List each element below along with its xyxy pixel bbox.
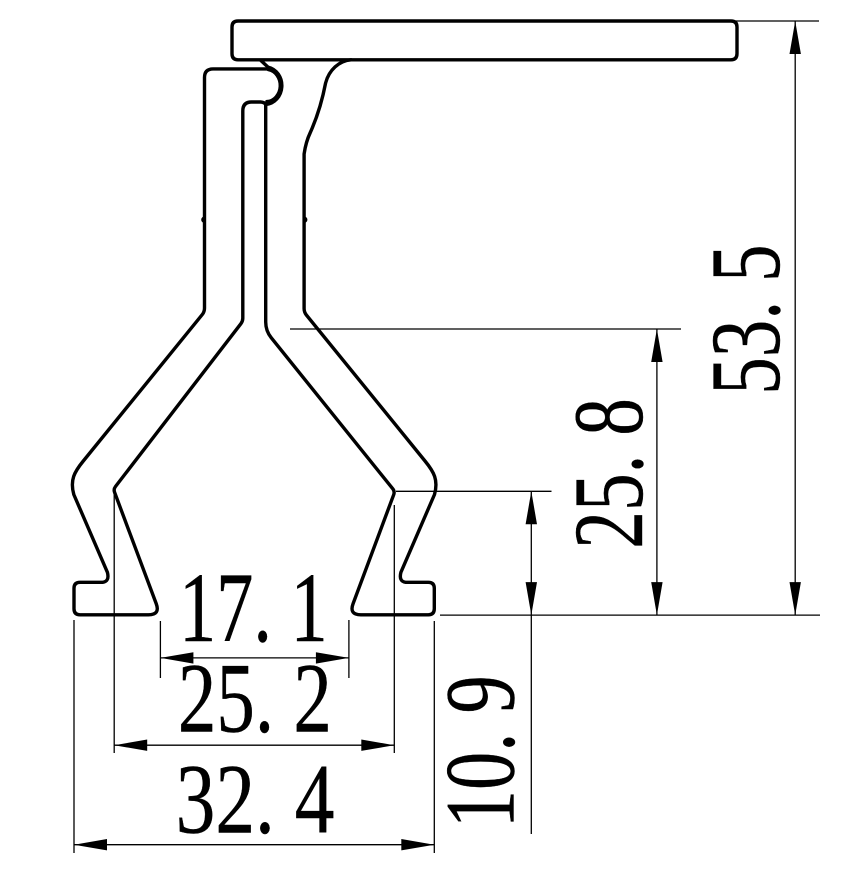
arrowhead 32.4 right <box>401 839 434 850</box>
extension line 10.9 top <box>396 490 552 492</box>
stem with cove, right leg and right foot <box>261 60 436 615</box>
dimension line 25.2 <box>114 744 394 746</box>
svg-text:32. 4: 32. 4 <box>176 744 335 855</box>
arrowhead 25.2 right <box>361 740 394 751</box>
svg-text:53. 5: 53. 5 <box>690 244 801 394</box>
arrowhead 10.9 bottom (down) <box>526 582 537 615</box>
top flange (bar) <box>232 21 737 60</box>
svg-text:25. 8: 25. 8 <box>553 398 664 549</box>
extension line 32.4 left <box>73 620 75 853</box>
hook knob inner arc <box>267 70 280 102</box>
dimension line 10.9 vertical <box>530 491 532 834</box>
arrowhead 17.1 right <box>316 652 349 663</box>
extension line bottom shared (feet bottom plane) <box>440 614 820 616</box>
arrowhead 25.8 bottom (down) <box>651 582 662 615</box>
dimension line 53.5 vertical <box>794 21 796 615</box>
arrowhead 32.4 left <box>74 839 107 850</box>
dimension line 17.1 <box>160 657 349 659</box>
extension line 25.2 right <box>393 505 395 753</box>
dimension line 32.4 <box>74 844 434 846</box>
extension line 17.1 right <box>348 620 350 678</box>
extension line 25.8 top <box>290 328 681 330</box>
arrowhead 25.2 left <box>114 740 147 751</box>
arrowhead 17.1 left <box>160 652 193 663</box>
arrowhead 10.9 top (up) <box>526 491 537 524</box>
extension line 32.4 right <box>433 621 435 853</box>
arrowhead 53.5 bottom (down) <box>790 582 801 615</box>
arrowhead 53.5 top (up) <box>790 21 801 54</box>
extension line 25.2 left <box>113 492 115 753</box>
arrowhead 25.8 top (up) <box>651 329 662 362</box>
dimension line 25.8 vertical <box>656 329 658 615</box>
extension line 17.1 left <box>159 621 161 678</box>
extension line top right (53.5) <box>735 20 819 22</box>
hook arm, left leg and left foot <box>72 69 268 615</box>
svg-text:25. 2: 25. 2 <box>178 643 332 754</box>
break jog on stem right wall <box>304 218 306 222</box>
svg-text:10. 9: 10. 9 <box>425 675 536 828</box>
break jog on arm outer wall <box>202 218 204 222</box>
